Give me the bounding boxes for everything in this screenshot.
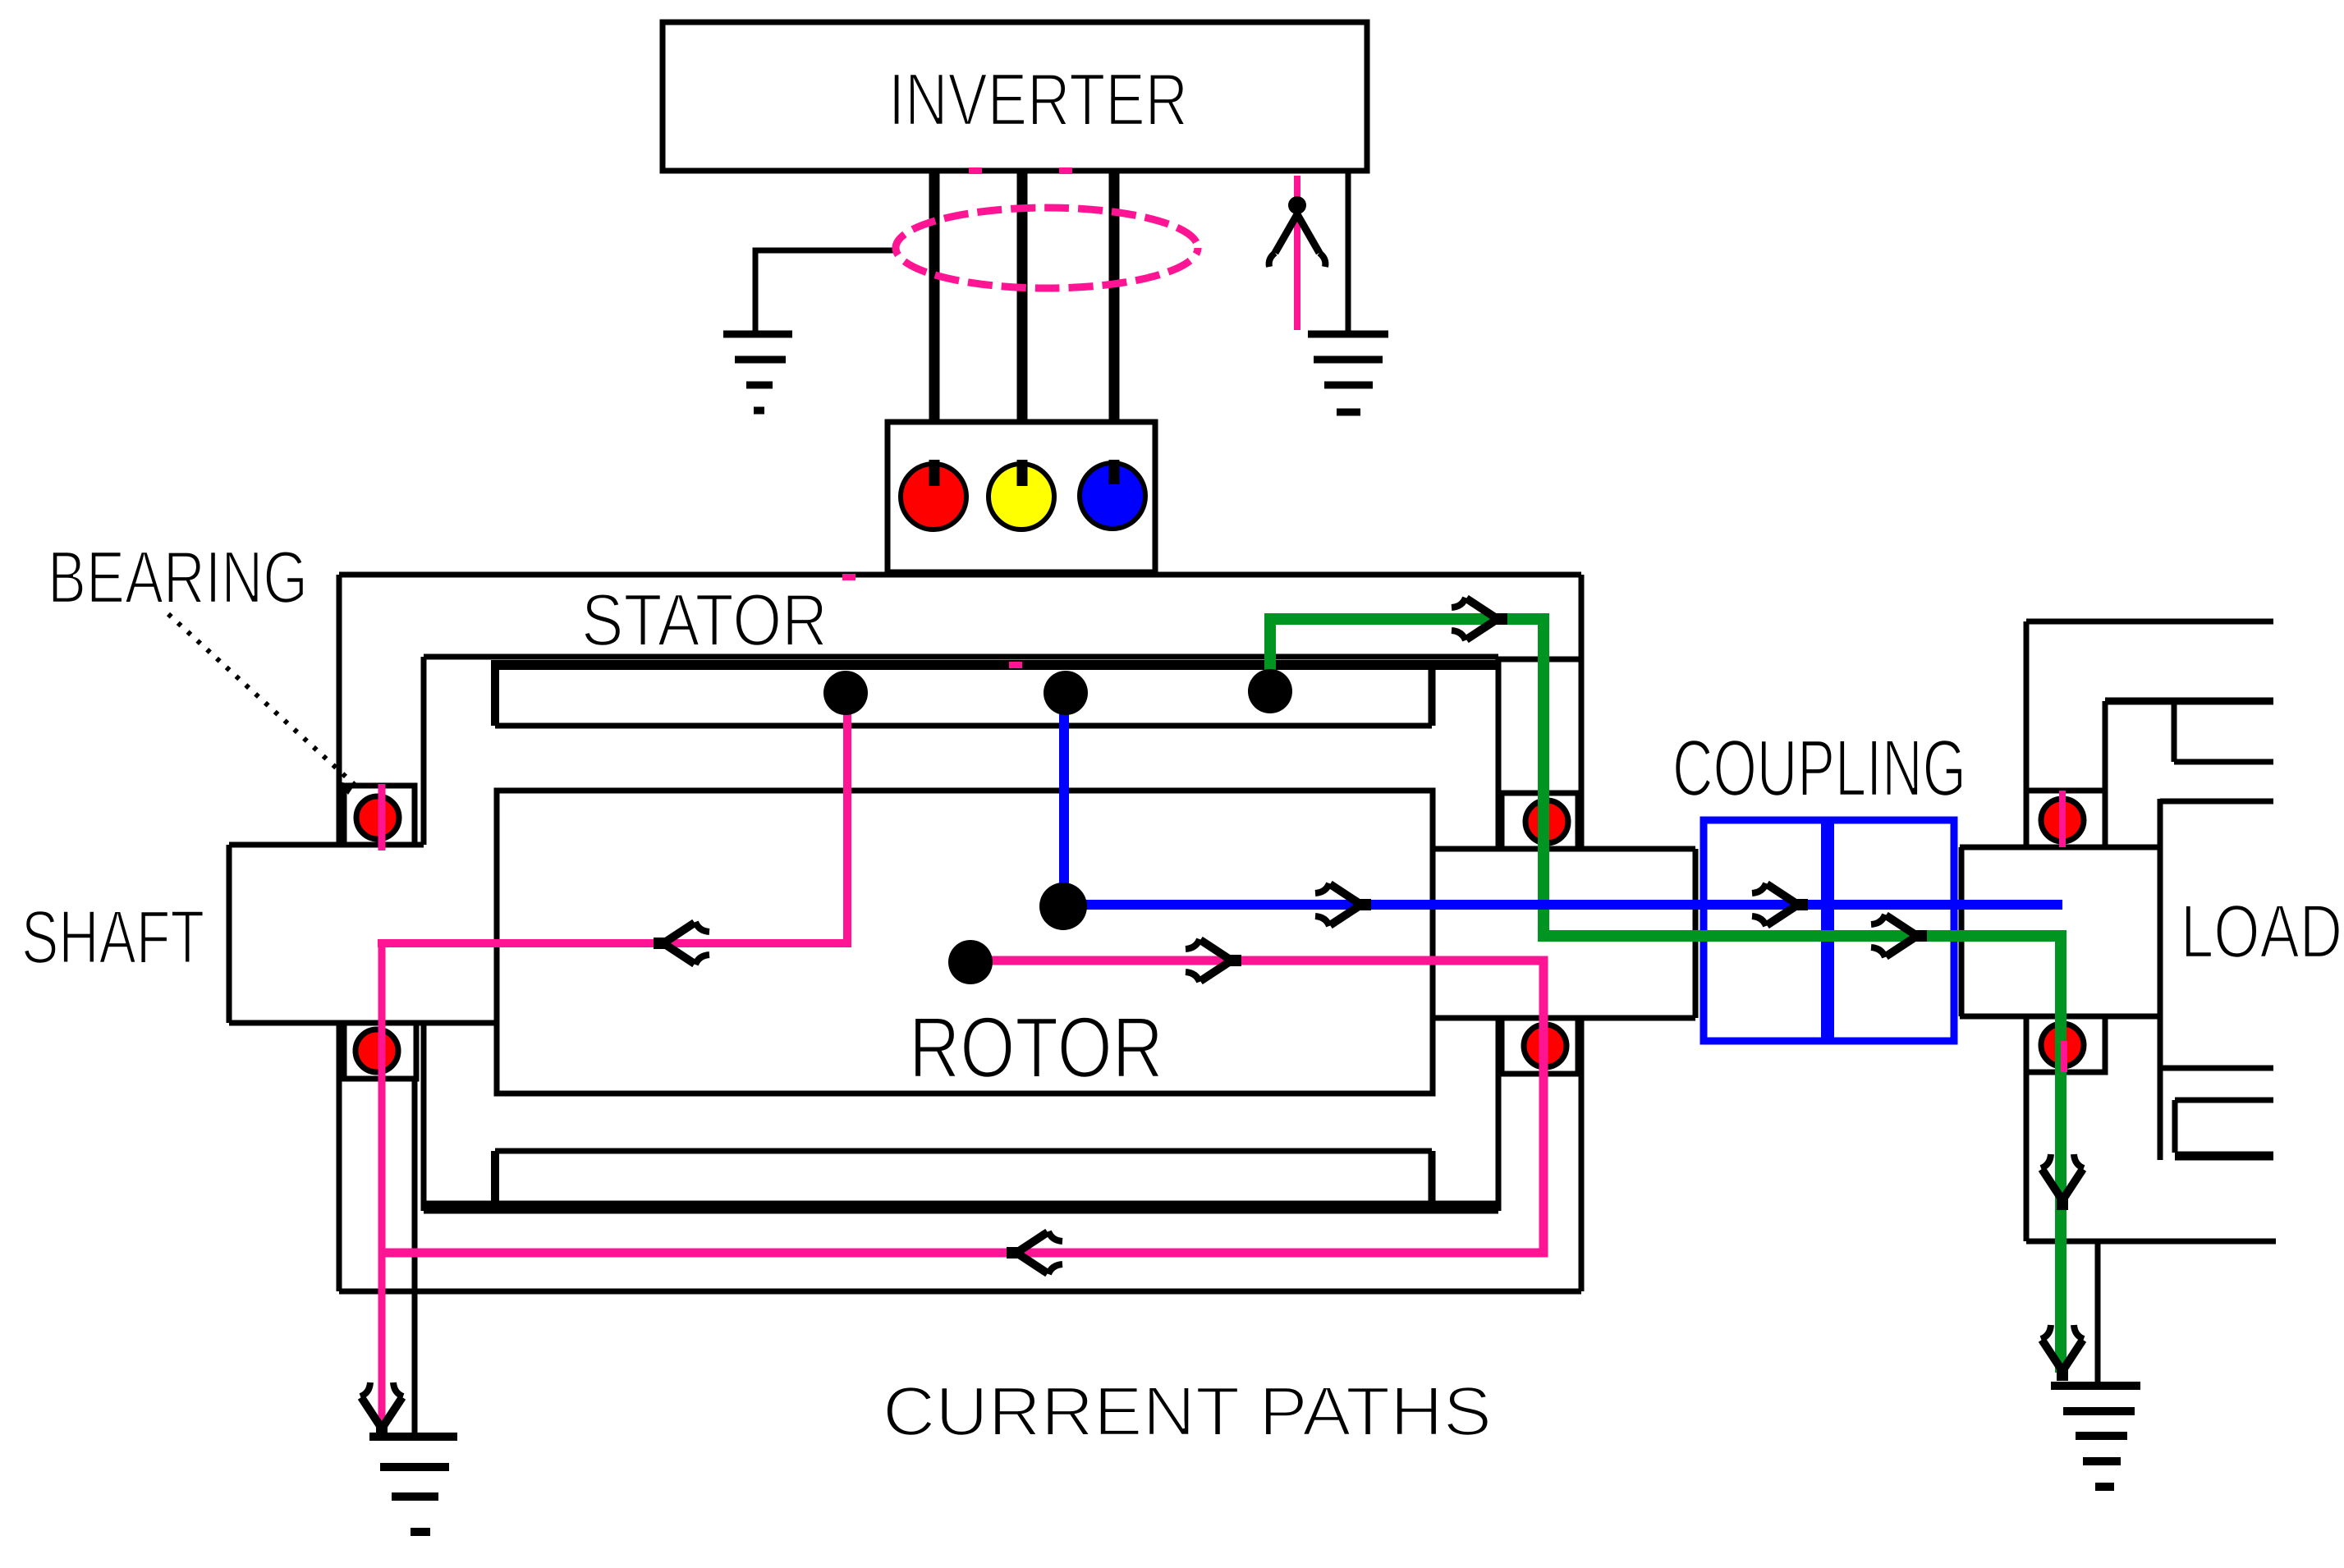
svg-text:BEARING: BEARING	[48, 537, 308, 619]
svg-text:ROTOR: ROTOR	[909, 1000, 1163, 1096]
svg-text:CURRENT PATHS: CURRENT PATHS	[883, 1373, 1492, 1450]
svg-text:INVERTER: INVERTER	[888, 59, 1188, 141]
svg-text:STATOR: STATOR	[581, 580, 828, 662]
svg-text:COUPLING: COUPLING	[1672, 723, 1966, 813]
svg-text:LOAD: LOAD	[2181, 890, 2342, 974]
svg-text:SHAFT: SHAFT	[21, 896, 204, 979]
